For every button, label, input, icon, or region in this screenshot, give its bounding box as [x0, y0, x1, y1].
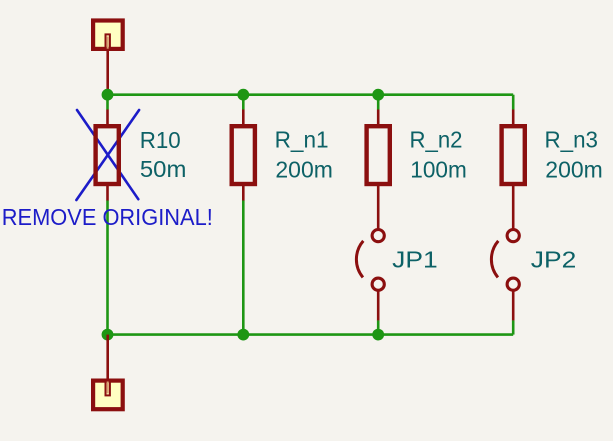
wire JP1 bottom pin to bottom rail	[377, 320, 380, 334]
wire bottom junction to bottom terminal	[106, 335, 109, 394]
terminal pad bottom	[93, 381, 123, 410]
junction bottom R_n1	[237, 329, 249, 341]
cross-out X over R10	[76, 110, 139, 200]
terminal pad top	[93, 21, 123, 95]
wire right drop from top rail corner	[512, 95, 515, 110]
junction top R_n2	[372, 89, 384, 101]
jumper JP2	[491, 230, 519, 321]
junction bottom-left	[102, 329, 114, 341]
svg-text:JP1: JP1	[392, 247, 438, 273]
svg-text:R_n2: R_n2	[410, 127, 463, 153]
wire stub top rail to R_n2 pin	[377, 95, 380, 110]
svg-text:R10: R10	[140, 127, 181, 153]
svg-text:100m: 100m	[410, 156, 467, 182]
jumper JP1	[356, 230, 384, 321]
junction top-left	[102, 89, 114, 101]
svg-text:200m: 200m	[275, 156, 333, 182]
svg-text:200m: 200m	[545, 156, 603, 182]
svg-text:REMOVE ORIGINAL!: REMOVE ORIGINAL!	[2, 204, 213, 230]
wire right riser to bottom rail corner	[512, 320, 515, 334]
resistor R_n2	[367, 110, 390, 230]
wire stub top rail to R_n1 pin	[242, 95, 245, 110]
resistor R10	[96, 110, 119, 201]
wire R_n1 bottom pin to bottom rail	[242, 200, 245, 334]
wire R10 bottom pin to bottom rail	[106, 200, 109, 334]
wire stub top rail to R10 pin	[106, 95, 109, 110]
resistor R_n3	[502, 110, 525, 230]
svg-text:R_n1: R_n1	[275, 127, 329, 153]
svg-text:R_n3: R_n3	[545, 127, 599, 153]
svg-text:50m: 50m	[140, 156, 187, 182]
svg-text:JP2: JP2	[531, 247, 577, 273]
junction top R_n1	[237, 89, 249, 101]
wire top rail	[108, 93, 514, 96]
junction bottom JP1	[372, 329, 384, 341]
wire bottom rail	[108, 333, 514, 336]
resistor R_n1	[232, 110, 255, 201]
